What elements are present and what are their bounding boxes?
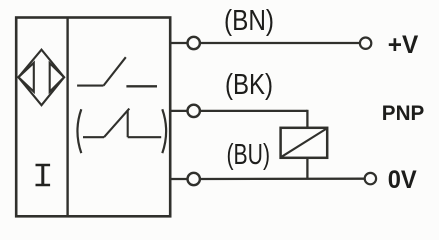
svg-text:(BU): (BU) [227, 139, 271, 171]
letter I (current symbol) [36, 165, 51, 185]
sensor body box [16, 18, 170, 217]
svg-text:(BN): (BN) [224, 5, 274, 37]
divider line [66, 18, 68, 217]
NO contact: right lead [126, 85, 157, 87]
diamond (proximity sensor symbol) [18, 50, 64, 105]
NC contact: switch arm [104, 109, 129, 138]
BU terminal circle [188, 173, 200, 185]
BK wire horizontal [200, 110, 307, 112]
BK wire vertical drop to load [306, 110, 308, 128]
svg-text:(BK): (BK) [225, 69, 273, 101]
svg-text:+V: +V [388, 31, 419, 59]
+V terminal circle [360, 38, 371, 49]
NO contact: left lead [77, 85, 103, 87]
BN terminal circle [188, 37, 200, 49]
svg-text:PNP: PNP [382, 102, 425, 125]
BK terminal stub [170, 110, 187, 112]
left triangle [18, 63, 33, 92]
load box [281, 128, 328, 158]
BU wire to 0V [200, 178, 364, 181]
NC contact: right lead [128, 136, 162, 138]
0V terminal circle [365, 173, 376, 184]
NO contact: switch arm [104, 57, 126, 85]
BU terminal stub [170, 178, 187, 180]
svg-text:0V: 0V [388, 166, 417, 194]
BN wire to +V [200, 42, 359, 44]
right triangle [50, 63, 64, 92]
BN terminal stub [170, 42, 187, 44]
NC contact: left lead [83, 136, 104, 138]
NC contact: stop bar [127, 110, 129, 137]
load diagonal [282, 129, 326, 157]
BK terminal circle [188, 105, 200, 117]
right parenthesis [162, 109, 166, 153]
load bottom lead [306, 158, 308, 179]
left parenthesis [77, 109, 81, 153]
